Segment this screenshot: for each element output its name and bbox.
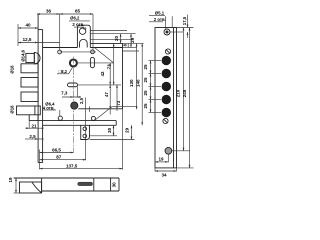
- svg-text:20: 20: [107, 127, 112, 133]
- svg-text:34: 34: [161, 172, 167, 177]
- svg-text:210: 210: [176, 89, 181, 97]
- svg-text:245: 245: [182, 89, 187, 97]
- svg-text:65: 65: [75, 8, 81, 13]
- svg-text:19: 19: [158, 156, 164, 161]
- svg-text:2,5: 2,5: [79, 97, 84, 104]
- svg-text:Ø6,2: Ø6,2: [70, 16, 80, 21]
- svg-text:30: 30: [111, 182, 116, 188]
- svg-text:19: 19: [8, 177, 13, 183]
- svg-text:□8,2: □8,2: [59, 69, 68, 74]
- svg-text:137,5: 137,5: [66, 164, 78, 169]
- svg-text:Ø18: Ø18: [10, 65, 15, 74]
- svg-text:36: 36: [46, 8, 52, 13]
- svg-text:2 отв.: 2 отв.: [72, 22, 84, 27]
- svg-text:25: 25: [143, 64, 148, 70]
- svg-text:73: 73: [107, 64, 112, 70]
- svg-text:130: 130: [129, 79, 134, 87]
- svg-text:73: 73: [116, 100, 121, 106]
- svg-text:2 отв.: 2 отв.: [154, 17, 166, 22]
- svg-text:4 отв.: 4 отв.: [43, 106, 55, 111]
- svg-text:21: 21: [31, 123, 37, 128]
- svg-text:47: 47: [104, 92, 109, 98]
- svg-text:42: 42: [100, 71, 105, 77]
- svg-text:Ø18: Ø18: [10, 105, 15, 114]
- svg-text:25: 25: [143, 90, 148, 96]
- svg-text:25: 25: [143, 103, 148, 109]
- svg-text:25: 25: [143, 77, 148, 83]
- svg-text:Ø5,1: Ø5,1: [155, 11, 165, 16]
- svg-text:12,5: 12,5: [23, 37, 32, 42]
- svg-text:40: 40: [25, 22, 31, 27]
- svg-text:87: 87: [56, 155, 62, 160]
- svg-text:Ø14,6: Ø14,6: [21, 49, 26, 61]
- svg-text:29: 29: [124, 127, 129, 133]
- svg-text:7,3: 7,3: [61, 91, 68, 96]
- svg-text:146: 146: [135, 79, 140, 87]
- svg-text:20: 20: [114, 36, 119, 42]
- svg-text:17,5: 17,5: [182, 16, 187, 25]
- svg-text:29: 29: [130, 37, 135, 43]
- svg-text:66,5: 66,5: [52, 147, 61, 152]
- svg-text:2,5: 2,5: [29, 134, 36, 139]
